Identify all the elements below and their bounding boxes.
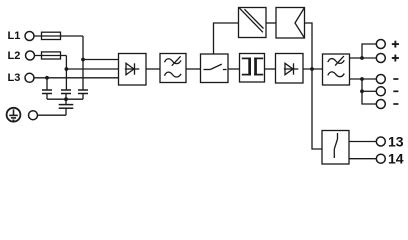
switch S1 contact symbol bbox=[204, 64, 227, 69]
rectifier U1 box bbox=[119, 54, 147, 86]
label minus 1 bbox=[393, 78, 398, 80]
label minus 2 bbox=[393, 90, 398, 92]
wire L1 vertical drop bbox=[82, 36, 84, 90]
feedback U4 chevron bbox=[295, 8, 305, 39]
wire through fuse F1 bbox=[42, 35, 61, 37]
wire L1 horizontal bbox=[34, 35, 83, 37]
filter U2 box bbox=[160, 54, 186, 83]
svg-text:L2: L2 bbox=[8, 50, 21, 62]
label minus 3 bbox=[393, 103, 398, 105]
fuse F2 bbox=[42, 52, 61, 59]
terminal L1 bbox=[25, 32, 34, 41]
node L3 capacitor branch bbox=[45, 76, 49, 80]
controller U3 box (chopper) bbox=[239, 8, 267, 38]
capacitor C3 bbox=[78, 90, 88, 99]
controller U3 double diagonal bbox=[239, 8, 263, 32]
wire through fuse F2 bbox=[42, 55, 61, 57]
wire feedback from controller to switch bbox=[214, 23, 239, 54]
switch S1 box bbox=[201, 54, 229, 83]
wire bus to C4 bbox=[65, 99, 67, 104]
terminal minus 1 bbox=[376, 75, 385, 84]
node negative branch 2 bbox=[360, 89, 364, 93]
svg-text:14: 14 bbox=[388, 151, 404, 167]
terminal L2 bbox=[26, 51, 35, 60]
node negative branch 1 bbox=[360, 77, 364, 81]
wire L3 vertical drop bbox=[46, 78, 48, 90]
wire filter1 to switch bbox=[186, 68, 201, 70]
capacitor C2 bbox=[61, 90, 71, 99]
relay K1 box bbox=[322, 131, 349, 165]
wire negative output bbox=[350, 78, 377, 80]
node main output junction bbox=[310, 67, 314, 71]
terminal minus 2 bbox=[376, 87, 385, 96]
wire L2 vertical drop bbox=[65, 56, 67, 91]
wire transformer to diode bbox=[265, 68, 276, 70]
wire switch to transformer bbox=[228, 68, 240, 70]
wire diode to output filter bbox=[303, 68, 323, 70]
transformer T1 winding symbol bbox=[242, 58, 263, 76]
wire positive output bbox=[350, 57, 377, 59]
wire capacitor bus bbox=[47, 98, 83, 100]
svg-text:L1: L1 bbox=[8, 30, 21, 42]
wire C4 to PE terminal bbox=[38, 114, 67, 116]
filter U2 symbol (tilde with slash) bbox=[165, 56, 182, 77]
terminal L3 bbox=[25, 73, 34, 82]
wire rectifier to filter1 bbox=[146, 68, 160, 70]
wire negative middle bbox=[362, 90, 376, 92]
rectifier U1 diode symbol bbox=[125, 63, 140, 74]
filter U5 symbol (tilde with slash) bbox=[328, 56, 345, 77]
relay K1 contact symbol bbox=[334, 133, 337, 158]
svg-text:L3: L3 bbox=[8, 72, 21, 84]
capacitor C4 bbox=[59, 105, 74, 116]
terminal 13 bbox=[376, 137, 385, 146]
capacitor C1 bbox=[42, 90, 52, 99]
transformer T1 box bbox=[240, 54, 265, 83]
terminal plus 1 bbox=[376, 40, 385, 49]
node positive branch bbox=[360, 56, 364, 60]
diode D1 box bbox=[276, 54, 304, 84]
node capacitor bus junction bbox=[64, 97, 68, 101]
wire positive branch up bbox=[362, 44, 376, 58]
node L2-rectifier junction bbox=[65, 67, 69, 71]
wire L1 to rectifier input 1 bbox=[83, 59, 119, 61]
wire L2 to rectifier input 2 bbox=[66, 68, 118, 70]
svg-text:13: 13 bbox=[388, 134, 404, 150]
wire feedback down to output node bbox=[305, 23, 323, 149]
terminal PE bbox=[29, 111, 38, 120]
diode D1 symbol bbox=[284, 63, 298, 74]
node L1-rectifier junction bbox=[81, 58, 85, 62]
wire controller to feedback element bbox=[266, 22, 276, 24]
wire relay output 13 bbox=[349, 141, 376, 143]
terminal plus 2 bbox=[376, 54, 385, 63]
terminal 14 bbox=[376, 154, 385, 163]
label plus 2 bbox=[392, 55, 399, 62]
feedback U4 box (opto) bbox=[276, 8, 305, 39]
ground (protective earth symbol) bbox=[7, 108, 21, 122]
filter U5 box (output) bbox=[323, 54, 350, 85]
wire relay output 14 bbox=[349, 158, 376, 160]
label plus 1 bbox=[392, 41, 399, 48]
wire negative branch down bbox=[362, 79, 376, 104]
terminal minus 3 bbox=[376, 100, 385, 109]
fuse F1 bbox=[42, 32, 61, 39]
wire L3 to rectifier input 3 bbox=[34, 77, 119, 79]
wire L2 horizontal bbox=[35, 55, 67, 57]
